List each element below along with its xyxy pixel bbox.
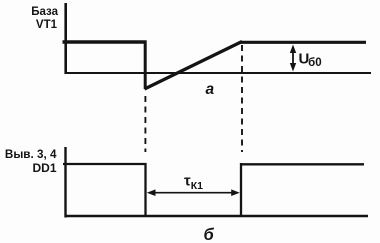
- axis (top plot): [64, 3, 67, 74]
- wire: output high right segment (DD1 pins 3,4): [240, 163, 364, 165]
- node: dashed timing line right: [241, 45, 243, 152]
- baseline (top plot): [65, 72, 372, 74]
- svg-text:τК1: τК1: [184, 173, 203, 193]
- dimension arrow U_B0: [290, 45, 296, 72]
- svg-text:б: б: [204, 226, 215, 243]
- dimension arrow tau_K1: [147, 189, 240, 196]
- node: dashed timing line left: [144, 96, 146, 152]
- wire: rising edge of output pulse: [240, 163, 242, 217]
- svg-text:Uб0: Uб0: [299, 50, 322, 69]
- wire: output high left segment (DD1 pins 3,4): [63, 163, 147, 165]
- svg-text:База: База: [31, 6, 58, 18]
- svg-text:DD1: DD1: [32, 161, 56, 175]
- svg-text:Выв. 3, 4: Выв. 3, 4: [5, 148, 57, 161]
- svg-text:VT1: VT1: [36, 19, 58, 31]
- wire: high level left segment (base VT1): [63, 40, 147, 43]
- wire: high level right segment (base VT1): [241, 41, 367, 44]
- axis (bottom plot): [64, 147, 66, 218]
- baseline (bottom plot): [65, 215, 369, 218]
- svg-text:а: а: [206, 81, 215, 98]
- wire: falling edge of output pulse: [144, 163, 146, 217]
- wire: charging ramp diagonal: [145, 42, 243, 90]
- wire: falling edge of base voltage: [144, 41, 147, 90]
